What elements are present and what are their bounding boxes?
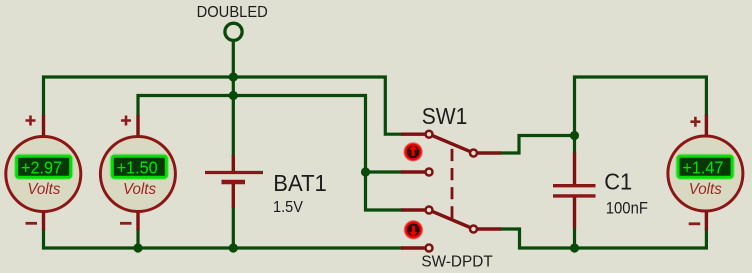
wire switch common top to node [500,136,575,154]
battery BAT1 short plate [222,180,246,185]
svg-text:+2.97: +2.97 [21,157,62,177]
wire right top to V3 plus [575,77,707,136]
battery BAT1 long plate [205,171,263,174]
switch SW1 pin throw2 bottom [426,245,433,252]
wire C1 bottom green [573,228,576,248]
junction dot bottom rail BAT1 [229,243,238,252]
voltmeter V1 LCD [17,156,71,177]
pin stub V3 minus [705,211,708,231]
svg-text:1.5V: 1.5V [273,199,303,216]
voltmeter V2 LCD [112,156,166,177]
switch SW1 pin common top [470,150,477,157]
pin stub SW1 throw2 bottom [401,246,425,249]
pin stub V1 minus [42,211,45,230]
pin stub V2 minus [136,211,139,230]
switch SW1 actuator top [403,142,423,162]
wire bottom rail left [44,229,404,248]
voltmeter V3 plus mark [690,117,700,127]
pin stub C1 top [573,153,576,185]
pin stub SW1 common bottom [478,227,501,230]
switch SW1 pin throw2 top [426,169,433,176]
pin stub SW1 common top [478,151,501,154]
svg-text:DOUBLED: DOUBLED [197,4,268,21]
pin stub BAT1 top [232,155,235,173]
pin stub BAT1 bottom [232,182,235,208]
switch SW1 actuator bottom [404,220,424,240]
svg-text:Volts: Volts [27,181,60,198]
voltmeter V2 body [100,137,175,212]
svg-text:SW-DPDT: SW-DPDT [421,253,493,270]
svg-text:SW1: SW1 [422,103,468,129]
junction dot node B rail [229,91,238,100]
pin stub SW1 throw1 bottom [401,208,425,211]
voltmeter V3 body [668,136,743,211]
svg-text:BAT1: BAT1 [273,170,327,196]
wire net B branch to middle pin [366,170,404,173]
wire switch common bottom to rail right [500,229,706,249]
switch SW1 pin common bottom [470,226,477,233]
junction dot node C1 bottom [570,243,579,252]
svg-text:Volts: Volts [689,181,722,198]
svg-text:+1.47: +1.47 [682,157,723,177]
wire V2 minus drop [136,229,139,248]
pin stub V1 plus [42,115,45,137]
wire battery bottom to rail [232,207,235,248]
switch SW1 pin throw1 bottom [426,207,433,214]
capacitor C1 bottom plate [553,194,596,197]
wire net B second horizontal [138,96,403,211]
voltmeter V2 minus mark [120,222,132,225]
voltmeter V3 minus mark [689,222,701,225]
svg-text:C1: C1 [604,169,632,195]
pin stub SW1 throw2 top [401,170,425,173]
voltmeter V1 minus mark [26,222,38,225]
junction dot bottom rail V2 [133,243,142,252]
pin stub C1 bottom [573,198,576,229]
switch SW1 coupling dashed line [451,149,454,219]
switch SW1 pin throw1 top [426,131,433,138]
wire net A top horizontal [44,77,404,134]
voltmeter V1 body [6,137,81,212]
wire DOUBLED vertical [232,42,235,156]
svg-text:+1.50: +1.50 [117,157,158,177]
voltmeter V2 plus mark [121,116,131,126]
voltmeter V3 LCD [678,156,732,177]
junction dot node B switch branch [361,167,370,176]
switch SW1 lever top [433,136,471,152]
terminal DOUBLED [225,23,242,40]
pin stub V3 plus [705,115,708,138]
wire C1 top green [573,136,576,155]
svg-text:Volts: Volts [123,181,156,198]
junction dot node DOUBLED/top rail [229,72,238,81]
switch SW1 lever bottom [433,212,471,228]
svg-text:100nF: 100nF [606,198,648,217]
junction dot node C1 top [570,131,579,140]
pin stub SW1 throw1 top [401,132,425,135]
voltmeter V1 plus mark [26,116,36,126]
capacitor C1 top plate [553,184,596,187]
pin stub V2 plus [136,115,139,137]
